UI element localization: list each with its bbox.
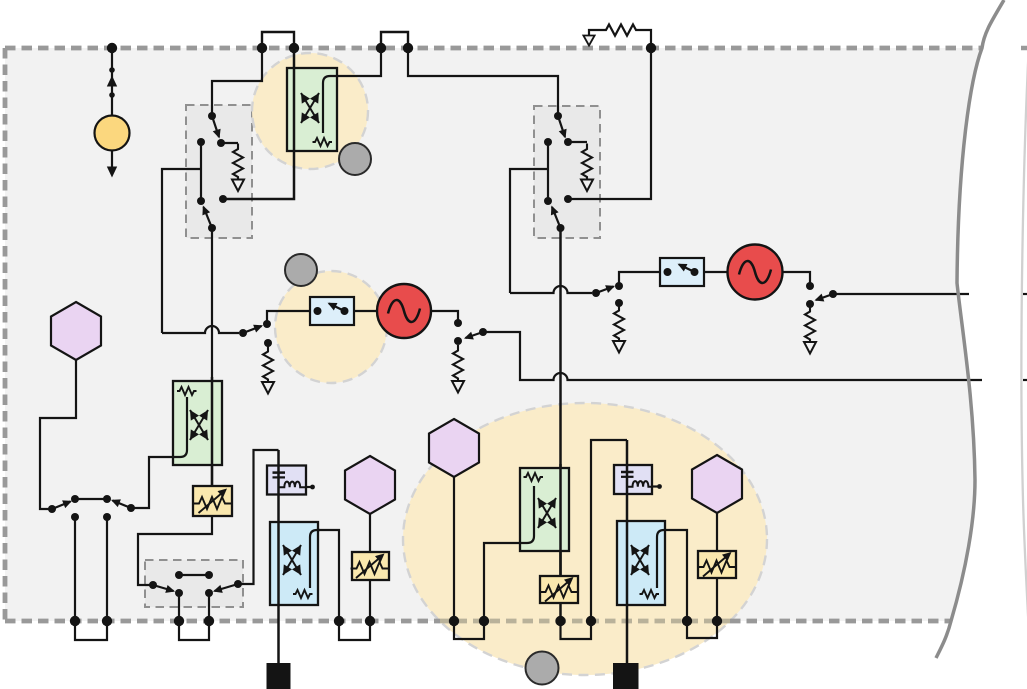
coupler U3 inner line — [520, 486, 534, 543]
switch K3 left lever — [153, 585, 174, 591]
flux bias down arrow — [107, 167, 117, 178]
junction K2 pivot — [554, 112, 562, 120]
ground dot pair6 right — [712, 616, 722, 626]
flux bias line top stem — [111, 48, 113, 116]
attenuator A2 — [351, 552, 390, 580]
load resistor R4 with open ground arrow — [581, 144, 593, 192]
coupler U1 inner line — [323, 76, 337, 133]
junction K1 pole bottom — [197, 197, 205, 205]
ground dot pair3 left — [334, 616, 344, 626]
wire K3 left throw ground drop — [178, 593, 180, 621]
load resistor R7 with open ground arrow — [804, 306, 816, 354]
coupler U2 — [173, 381, 222, 465]
transfer switch box K1 (dashed) — [186, 105, 252, 238]
junction node C pole — [479, 328, 487, 336]
bridge over shield at node B — [381, 32, 408, 48]
coupler U4 — [270, 522, 318, 605]
ground dot pair5 left — [555, 616, 565, 626]
glow ellipse around qubit cell — [403, 403, 767, 675]
junction link bar left — [71, 495, 79, 503]
node dot A right — [289, 43, 299, 53]
junction K3 bar right — [205, 571, 213, 579]
cryostat wall curve — [936, 0, 1004, 658]
wire ground pair 5 up to filter F2 feed — [591, 440, 627, 621]
wire ground loop pair 2 — [179, 621, 209, 640]
shield bottom dashed border east — [730, 619, 951, 624]
filter F2 — [614, 465, 652, 494]
hexagon H4 — [692, 455, 742, 513]
glow circle around switch S5 and source V1 — [275, 271, 387, 383]
switch K2 lower lever — [552, 207, 561, 228]
wire east line continuation stub 2 — [1023, 379, 1027, 381]
ground dot pair2 right — [204, 616, 214, 626]
shield bottom dashed border across qubit cell — [440, 619, 730, 624]
wire ground loop pair 4 — [454, 621, 484, 639]
flux bias source circle — [95, 116, 130, 151]
microwave switch S6 — [660, 258, 704, 286]
node dot D — [646, 43, 656, 53]
wire coupler U1 output to node B bridge — [323, 48, 381, 133]
flux line dot upper — [109, 67, 115, 73]
wire S1 throw up to microwave switch S5 — [267, 311, 310, 324]
gray marker circle 2 — [285, 254, 317, 286]
wire east line continuation stub 1 — [1023, 293, 1027, 295]
filter F1 — [267, 466, 306, 495]
junction S2 throw up — [615, 282, 623, 290]
gray marker circle 3 — [526, 652, 559, 685]
microwave switch S5 — [310, 297, 354, 325]
wire coupler U4 output down to ground pair 3 — [318, 530, 339, 621]
wire ground loop pair 1 — [75, 621, 107, 640]
attenuator A1 — [193, 486, 232, 516]
gray marker circle 1 — [339, 143, 371, 175]
wire node D down to switch K2 — [568, 48, 651, 199]
wire K1 lower pole down through coupler U2 — [211, 228, 213, 486]
junction node E load — [806, 300, 814, 308]
glow circle around coupler U1 — [252, 53, 368, 169]
coupler U2 inner line — [173, 397, 187, 457]
ground dot pair2 left — [174, 616, 184, 626]
flux line dot lower — [109, 92, 115, 98]
load resistor R2 with open ground arrow — [262, 346, 274, 394]
attenuator A4 — [698, 551, 737, 578]
filter F2 tap dot — [657, 484, 662, 489]
wire ground loop pair 5 — [561, 621, 592, 639]
junction S1 pole — [239, 329, 247, 337]
port termination square 2 — [613, 663, 639, 689]
transfer switch box K3 (dashed) — [145, 560, 243, 607]
flux bias line bottom stem — [111, 151, 113, 168]
ground dot pair1 right — [102, 616, 112, 626]
ground dot pair4 right — [479, 616, 489, 626]
shield top dashed border — [5, 46, 981, 51]
ground dot pair1 left — [70, 616, 80, 626]
wire S2 throw up to microwave switch S6 — [619, 272, 660, 286]
junction S2 throw load — [615, 299, 623, 307]
wire ground loop pair 3 — [339, 621, 370, 640]
junction K2 lower pole — [557, 224, 565, 232]
node dot B right — [403, 43, 413, 53]
junction K1 throw — [217, 139, 225, 147]
wire node A to switch K1 pivot — [212, 48, 262, 116]
coupler U1 — [287, 68, 337, 151]
hexagon H3 — [429, 419, 479, 477]
wire node B to switch K2 pivot — [408, 48, 558, 116]
port termination square 1 — [267, 663, 291, 689]
wire K2 pole bar — [547, 142, 549, 201]
switch K1 upper lever — [212, 116, 219, 137]
node dot A left — [257, 43, 267, 53]
shield left dashed border — [3, 48, 8, 621]
readout chain 2 through line — [626, 440, 629, 663]
junction S1 throw load — [264, 339, 272, 347]
wire K2 throw to load resistor R4 — [568, 141, 587, 143]
wire node C pole to long line east — [483, 332, 982, 380]
coupler U2 through line — [211, 377, 214, 486]
junction K1 lower pole — [208, 224, 216, 232]
junction K1 aux — [219, 195, 227, 203]
load resistor R1 with open ground arrow — [232, 144, 244, 192]
node dot B left — [376, 43, 386, 53]
wire S6 to source V2 — [704, 271, 728, 273]
wire source V2 to node E — [783, 272, 811, 286]
switch K1 lower lever — [204, 207, 213, 228]
wire coupler U2 output to link switch — [131, 457, 173, 508]
ground dot pair5 right — [586, 616, 596, 626]
junction K1 pivot — [208, 112, 216, 120]
switch S3 lever at node C — [466, 332, 484, 338]
junction node E pole — [829, 290, 837, 298]
junction K3 throw left — [175, 589, 183, 597]
transfer switch box K2 (dashed) — [534, 106, 600, 238]
switch S4 lever at node E — [816, 294, 833, 300]
ground dot pair6 left — [682, 616, 692, 626]
wire K2 lower pole down to qubit cell — [559, 228, 562, 620]
junction K2 throw — [564, 138, 572, 146]
wire hexagon H2 through attenuator A2 — [369, 514, 371, 621]
next stage wall curve (right edge) — [1021, 25, 1027, 689]
wire node E pole to east readout line — [833, 293, 969, 295]
switch S2 lever — [596, 287, 614, 294]
wire K2 pole tap to west — [510, 169, 548, 293]
link switch left lever — [52, 502, 71, 510]
wire qubit Q1 to hexagon H1 — [40, 360, 76, 509]
hexagon H2 — [345, 456, 395, 514]
wire K3 bar — [179, 574, 209, 576]
wire K3 right pole to readout chain bridge — [238, 450, 279, 584]
junction K1 pole top — [197, 138, 205, 146]
junction K3 bar left — [175, 571, 183, 579]
coupler U4 inner line — [310, 530, 320, 588]
next stage dashed border stub top right — [1021, 46, 1027, 51]
wire filter F2 tap stub — [652, 485, 658, 487]
wire filter F1 tap stub — [306, 486, 311, 488]
wire hexagon H4 through attenuator A4 — [716, 513, 718, 621]
microwave source V1 — [377, 284, 431, 338]
wire link bar left — [75, 498, 107, 500]
filter F1 tap dot — [310, 485, 315, 490]
junction link drop left — [71, 513, 79, 521]
open ground arrow for R3 — [583, 36, 594, 46]
junction K3 left pole — [149, 581, 157, 589]
wire K3 right throw ground drop — [208, 593, 210, 621]
junction K2 pole bottom — [544, 197, 552, 205]
coupler U3 through line — [559, 464, 562, 576]
junction node C load — [454, 337, 462, 345]
wire ground loop pair 6 — [687, 621, 717, 638]
junction node E source — [806, 282, 814, 290]
coupler U5 inner line — [657, 530, 687, 620]
attenuator A3 — [540, 576, 579, 603]
bridge over shield at node A — [262, 32, 294, 48]
junction link drop right — [103, 513, 111, 521]
ground dot pair3 right — [365, 616, 375, 626]
switch S1 lever — [243, 326, 262, 333]
wire link left ground drop — [74, 517, 76, 621]
wire K1 pole bar — [200, 142, 202, 201]
wire source V1 to node C — [431, 311, 458, 323]
junction S2 pole — [592, 289, 600, 297]
node dot flux line on shield — [107, 43, 117, 53]
junction link bar right — [103, 495, 111, 503]
switch K3 right lever — [215, 584, 239, 591]
load resistor R5 with open ground arrow — [452, 345, 464, 393]
switch K2 upper lever — [558, 116, 565, 137]
wire S5 to source V1 — [354, 310, 377, 312]
link switch right lever — [113, 501, 132, 509]
wire link right ground drop — [106, 517, 108, 621]
wire west run to switch S1 with hop over U2 line — [162, 326, 239, 333]
cryostat shield region — [5, 48, 982, 621]
shield bottom dashed border west — [5, 619, 440, 624]
flux bias up arrow — [107, 76, 117, 87]
junction node C source — [454, 319, 462, 327]
coupler U1 through line — [223, 48, 294, 199]
wire coupler U3 output to ground pair 4 — [484, 543, 520, 621]
wire hexagon H3 drop — [453, 477, 455, 621]
junction link right pole — [127, 504, 135, 512]
ground dot pair4 left — [449, 616, 459, 626]
microwave source V2 — [728, 245, 783, 300]
readout chain 1 through line — [277, 450, 280, 663]
wire west run to switch S2 with hop — [510, 286, 592, 293]
junction K2 pole top — [544, 138, 552, 146]
wire K1 pole tap to west — [162, 169, 201, 333]
coupler U5 — [617, 521, 665, 605]
wire attenuator A1 to switch K3 left pole — [138, 516, 212, 585]
junction S1 throw up — [263, 320, 271, 328]
coupler U3 — [520, 468, 569, 551]
wire K1 throw to load resistor R1 — [221, 142, 238, 144]
junction K3 throw right — [205, 589, 213, 597]
load resistor R6 with open ground arrow — [613, 305, 625, 353]
junction K2 aux — [564, 195, 572, 203]
hexagon H1 — [51, 302, 101, 360]
junction link left pole — [48, 505, 56, 513]
wire top resistor R3 to node D — [589, 25, 651, 49]
junction K3 right pole — [234, 580, 242, 588]
